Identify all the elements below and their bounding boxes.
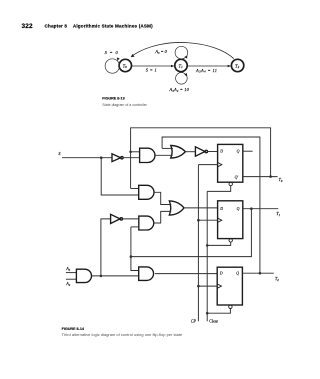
wire: U2 Q output to T1 bbox=[243, 208, 278, 210]
AND gate G9 (A3 A4) bbox=[76, 269, 91, 282]
clear bubble U2 bbox=[229, 239, 232, 242]
svg-text:FIGURE 8-13: FIGURE 8-13 bbox=[102, 97, 124, 101]
wire: A4 input bbox=[66, 278, 77, 280]
wire: Clear vertical bbox=[206, 191, 208, 321]
wire: S branch down to AND2 bbox=[101, 158, 139, 195]
node: S junction bbox=[100, 156, 103, 159]
node: junction A3A4 branch up bbox=[100, 275, 103, 278]
node: junction U2 Q wrap bbox=[250, 207, 253, 210]
wire: A3A4 up to inverter G6 bbox=[101, 219, 111, 276]
svg-text:D: D bbox=[219, 271, 223, 275]
node: junction CP to U3 clock bbox=[197, 285, 200, 288]
state T1 circle bbox=[175, 59, 187, 71]
node: junction T1 wrap to vertical bbox=[130, 255, 133, 258]
self-loop on T0 bbox=[105, 57, 120, 73]
transition arrow T1 to T2 bbox=[188, 65, 232, 68]
D flip-flop U1 (T0) bbox=[218, 144, 243, 182]
wire: inverter G4 out to FF1 D bbox=[208, 151, 218, 153]
AND gate G2 (T0 S') bbox=[140, 148, 155, 162]
wire: AND4 out to AND5 bottom bbox=[92, 275, 139, 277]
wire: AND5 out to FF3 D bbox=[155, 273, 217, 275]
state T2 circle bbox=[231, 59, 243, 71]
node: junction CP to U2 clock bbox=[197, 219, 200, 222]
return arc T2 to T0 bbox=[131, 42, 234, 58]
svg-text:Q: Q bbox=[237, 150, 240, 154]
clear bubble U1 bbox=[229, 182, 232, 185]
wire: T1 vertical down to AND5 bbox=[131, 257, 139, 271]
wire: A3 input bbox=[66, 272, 77, 274]
transition arrow T0 to T1 bbox=[132, 65, 175, 68]
svg-text:State diagram of a controller: State diagram of a controller bbox=[102, 103, 147, 107]
clear bubble U3 bbox=[229, 305, 232, 308]
inverter G4 (before FF1 D) bbox=[195, 147, 207, 156]
svg-text:Chapter 8 Algorithmic State: Chapter 8 Algorithmic State Machines (AS… bbox=[45, 23, 154, 28]
wire: T2 line into OR1 top input bbox=[162, 147, 173, 149]
svg-text:Q: Q bbox=[236, 271, 239, 275]
clock wedge U3 bbox=[217, 284, 221, 288]
wire: T0 feedback top line bbox=[131, 128, 271, 189]
svg-text:CP: CP bbox=[191, 319, 197, 324]
svg-text:S = 0: S = 0 bbox=[105, 50, 119, 55]
OR gate G3 bbox=[171, 145, 186, 158]
D flip-flop U3 (T2) bbox=[217, 267, 242, 305]
wire: T0 line into AND1 top input bbox=[131, 151, 140, 153]
wire: U3 clear bubble to Clear line bbox=[207, 309, 230, 314]
AND gate G5 (T0 S) bbox=[139, 185, 154, 199]
node: junction Clear to U3 clear bbox=[206, 312, 209, 315]
node: junction Q' to feedback vertical bbox=[269, 175, 272, 178]
wire: T2 feedback second line bbox=[162, 137, 260, 273]
wire: AND2 out right-down to OR2 top bbox=[154, 192, 171, 204]
svg-text:Q: Q bbox=[237, 207, 240, 211]
wire: U1 Q stub bbox=[243, 150, 253, 152]
wire: AND3 out right-up to OR2 bottom bbox=[154, 211, 171, 223]
svg-text:Q′: Q′ bbox=[235, 175, 239, 179]
wire: U3 clock from CP bbox=[198, 285, 217, 287]
inverter G6 (A3A4 invert) bbox=[111, 214, 123, 223]
AND gate G7 (T1 (A3A4)') bbox=[139, 216, 154, 230]
wire: T1 vertical up to AND3 bbox=[130, 227, 132, 257]
wire: inverter G1 out to AND1 bbox=[123, 157, 139, 159]
svg-text:Third alternative logic diagra: Third alternative logic diagram of contr… bbox=[62, 332, 183, 337]
svg-text:S = 1: S = 1 bbox=[146, 68, 157, 73]
clock wedge U1 bbox=[218, 162, 222, 166]
state T0 circle bbox=[119, 59, 131, 71]
OR gate G8 bbox=[169, 201, 184, 215]
wire: U1 clock from CP bbox=[198, 164, 217, 166]
wire: OR2 out to FF2 D bbox=[184, 207, 218, 209]
svg-text:D: D bbox=[219, 207, 223, 211]
wire: OR1 out to inverter G4 bbox=[185, 151, 195, 153]
svg-text:322: 322 bbox=[22, 23, 34, 30]
wire: S input horizontal bbox=[62, 157, 112, 159]
node: junction T0 line to AND1 bbox=[129, 151, 132, 154]
wire: U1 clear bubble down-left to Clear line bbox=[207, 186, 231, 192]
D flip-flop U2 (T1) bbox=[218, 201, 243, 239]
node: junction U3 Q to T2 feedback vertical bbox=[259, 272, 262, 275]
wire: U3 Q output to T2 bbox=[242, 272, 273, 274]
self-loop top on T1 (A3=0) bbox=[175, 46, 188, 59]
clock wedge U2 bbox=[218, 218, 222, 222]
self-loop bottom on T1 (A3A4=10) bbox=[176, 73, 188, 85]
wire: U2 clear bubble to Clear line bbox=[207, 242, 231, 245]
wire: T1 wrap down-left bbox=[131, 209, 252, 257]
wire: inverter G6 out to AND3 bbox=[123, 218, 139, 220]
inverter G1 (S invert) bbox=[112, 154, 123, 162]
wire: AND1 out to OR1 bbox=[155, 154, 173, 156]
wire: U1 Q' output to T0 bbox=[243, 176, 278, 178]
node: junction Clear to U2 clear bbox=[206, 244, 209, 247]
wire: CP vertical bbox=[197, 165, 199, 322]
svg-text:Clear: Clear bbox=[209, 319, 218, 324]
AND gate G10 (T1 A3A4) bbox=[139, 267, 154, 281]
wire: T0 into AND2 top input bbox=[131, 188, 139, 190]
svg-text:D: D bbox=[219, 150, 223, 154]
wire: U2 clock from CP bbox=[198, 219, 217, 221]
wire: T1 into AND3 bottom input bbox=[131, 226, 139, 228]
svg-text:FIGURE 8-14: FIGURE 8-14 bbox=[62, 327, 85, 331]
